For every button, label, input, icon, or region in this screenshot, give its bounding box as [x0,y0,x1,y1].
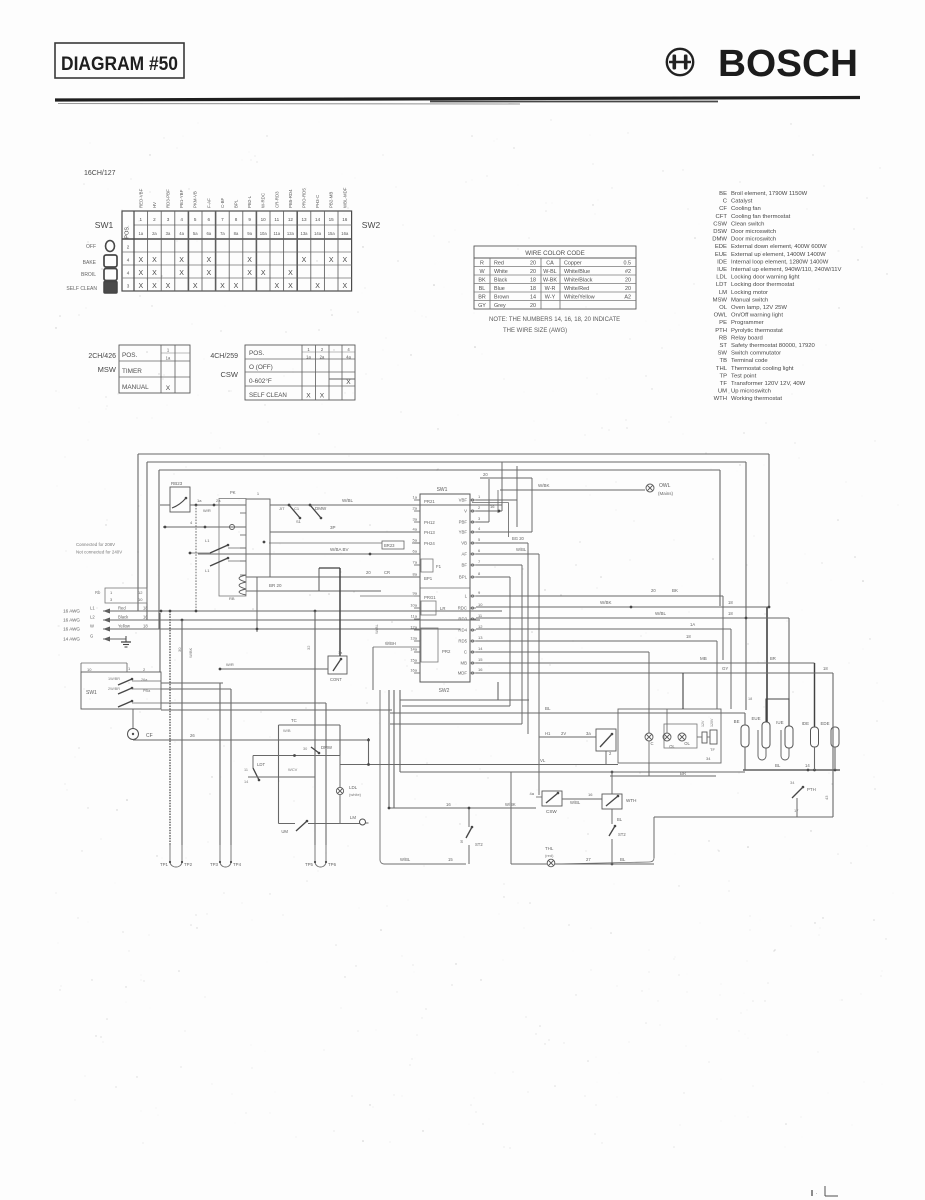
svg-text:6: 6 [208,217,211,222]
svg-text:Test point: Test point [731,373,757,379]
svg-text:18: 18 [530,286,536,292]
svg-text:14: 14 [478,646,483,651]
svg-text:30: 30 [177,647,182,652]
svg-text:11: 11 [244,768,248,772]
svg-text:Internal loop element, 1280W 1: Internal loop element, 1280W 1400W [731,259,829,265]
svg-text:BROIL: BROIL [81,272,96,278]
svg-text:TP5: TP5 [305,862,314,867]
svg-text:X: X [166,283,171,290]
svg-text:OWL: OWL [659,483,671,489]
svg-text:1: 1 [140,217,143,222]
svg-text:C-BF: C-BF [220,197,225,208]
svg-text:CF: CF [146,733,153,739]
svg-text:C: C [464,650,467,655]
svg-text:W-RDC: W-RDC [261,193,266,208]
svg-text:C: C [650,741,653,746]
svg-text:Cooling fan: Cooling fan [731,206,761,212]
svg-text:15: 15 [329,217,335,222]
svg-text:9: 9 [478,590,481,595]
svg-text:BL: BL [620,857,626,862]
svg-text:W/BL: W/BL [516,547,527,552]
svg-text:2: 2 [321,347,324,352]
svg-text:3a: 3a [586,731,591,736]
svg-text:16: 16 [446,802,451,807]
svg-text:BR: BR [770,656,776,661]
svg-text:W/B: W/B [283,728,291,733]
svg-text:SW1: SW1 [437,487,448,493]
svg-text:Internal up element, 940W/110,: Internal up element, 940W/110, 240W/11V [731,267,842,273]
svg-text:16: 16 [342,217,348,222]
svg-text:PBF: PBF [459,520,468,525]
svg-text:18: 18 [530,277,536,283]
svg-text:Oven lamp, 12V 25W: Oven lamp, 12V 25W [731,305,787,311]
svg-text:OL: OL [684,741,690,746]
svg-text:16a: 16a [410,668,417,673]
svg-text:3a: 3a [166,231,171,236]
svg-text:14 AWG: 14 AWG [63,637,80,642]
svg-text:White/Black: White/Black [564,277,593,283]
svg-text:LDT: LDT [716,282,728,288]
svg-text:1: 1 [257,491,260,496]
svg-text:2a: 2a [413,506,418,511]
svg-text:X: X [306,393,311,400]
svg-text:Broil element, 1790W 1150W: Broil element, 1790W 1150W [731,191,808,197]
svg-text:X: X [179,257,184,264]
svg-text:W/BL: W/BL [342,498,353,503]
svg-text:W-R: W-R [545,286,556,292]
svg-text:F1: F1 [436,564,442,569]
svg-text:SW1: SW1 [86,690,97,696]
svg-text:RB: RB [719,335,727,341]
svg-text:Manual switch: Manual switch [731,297,768,303]
svg-text:TP6: TP6 [328,862,337,867]
svg-text:X: X [346,379,351,386]
svg-text:PTH: PTH [807,787,816,792]
svg-text:1a: 1a [138,231,143,236]
svg-text:LM: LM [719,290,727,296]
svg-text:34: 34 [706,756,711,761]
svg-text:TP2: TP2 [184,862,193,867]
svg-text:CA: CA [546,260,554,266]
svg-text:Locking door warning light: Locking door warning light [731,275,800,281]
svg-text:H1: H1 [545,731,551,736]
svg-text:5: 5 [478,537,481,542]
svg-text:EDE: EDE [715,244,727,250]
svg-text:PH12: PH12 [424,520,435,525]
svg-text:16 AWG: 16 AWG [63,627,80,632]
svg-text:X: X [193,283,198,290]
svg-text:10: 10 [478,602,483,607]
svg-text:CONT: CONT [330,677,342,682]
svg-text:PRO-RD5: PRO-RD5 [302,188,307,208]
svg-text:RD4: RD4 [458,628,467,633]
svg-text:3a: 3a [413,517,418,522]
svg-text:14: 14 [244,780,248,784]
svg-text:4: 4 [180,217,183,222]
svg-text:Yellow: Yellow [118,624,131,629]
svg-text:9a: 9a [413,591,418,596]
svg-text:G: G [90,634,93,639]
svg-text:7a: 7a [220,231,225,236]
svg-text:3: 3 [478,516,481,521]
svg-text:THL: THL [716,366,728,372]
svg-text:X: X [152,270,157,277]
svg-text:TF: TF [720,381,728,387]
svg-text:W/BL: W/BL [570,800,581,805]
svg-text:11a: 11a [273,231,280,236]
svg-text:3: 3 [110,597,113,602]
svg-text:WIRE COLOR CODE: WIRE COLOR CODE [525,250,584,257]
svg-text:AF: AF [462,552,468,557]
svg-text:VB: VB [461,541,467,546]
svg-text:BR: BR [680,771,686,776]
svg-text:Not connected for 240V: Not connected for 240V [76,550,122,555]
svg-text:X: X [302,257,307,264]
svg-text:15a: 15a [410,658,417,663]
svg-text:VBF: VBF [459,498,468,503]
svg-text:Black: Black [494,277,507,283]
svg-text:L2: L2 [90,615,95,620]
svg-text:BR23: BR23 [384,543,395,548]
svg-text:X: X [138,283,143,290]
svg-text:27: 27 [586,857,591,862]
svg-text:6a: 6a [206,231,211,236]
svg-text:1a: 1a [197,498,202,503]
svg-text:18: 18 [748,697,752,701]
svg-text:W-Y: W-Y [545,294,556,300]
svg-text:PBa: PBa [143,689,151,693]
svg-text:20: 20 [366,570,371,575]
svg-text:13: 13 [301,217,307,222]
svg-text:YBF: YBF [459,530,468,535]
svg-text:16a: 16a [341,231,349,236]
svg-text:W/BL: W/BL [400,857,411,862]
svg-text:2: 2 [143,667,146,672]
svg-text:CSW: CSW [221,370,239,379]
svg-text:PH13: PH13 [424,530,435,535]
svg-text:OWL: OWL [714,313,728,319]
svg-text:10: 10 [138,597,143,602]
svg-text:W/BK: W/BK [505,802,516,807]
svg-text:20: 20 [530,260,536,266]
svg-text:16: 16 [588,792,593,797]
svg-text:BG 20: BG 20 [512,536,525,541]
svg-text:12: 12 [138,590,143,595]
svg-text:GY: GY [722,666,728,671]
svg-text:Safety thermostat 80000, 17920: Safety thermostat 80000, 17920 [731,343,816,349]
svg-text:5: 5 [194,217,197,222]
svg-text:3P: 3P [330,525,336,530]
svg-text:Copper: Copper [564,260,582,266]
svg-text:L: L [465,594,468,599]
svg-text:12: 12 [478,624,483,629]
svg-text:Locking motor: Locking motor [731,290,768,296]
svg-text:BP1: BP1 [424,576,433,581]
svg-text:CR: CR [384,570,390,575]
svg-text:4: 4 [190,520,193,525]
svg-text:White/Yellow: White/Yellow [564,294,595,300]
svg-text:X: X [206,257,211,264]
svg-text:1: 1 [307,347,310,352]
svg-text:IDE: IDE [717,259,727,265]
svg-text:LDL: LDL [716,275,728,281]
svg-text:SW1: SW1 [95,220,114,230]
svg-text:W/R: W/R [226,662,234,667]
svg-text:White/Blue: White/Blue [564,269,590,275]
svg-text:L1: L1 [205,568,210,573]
svg-text:X: X [247,270,252,277]
svg-text:OFF: OFF [86,244,96,250]
svg-text:CFT: CFT [716,214,728,220]
svg-text:8: 8 [235,217,238,222]
svg-text:13: 13 [478,635,483,640]
svg-text:X: X [342,283,347,290]
svg-text:7: 7 [221,217,224,222]
svg-text:PR2: PR2 [442,649,451,654]
svg-text:Door microswitch: Door microswitch [731,229,776,235]
svg-text:IDE: IDE [802,721,809,726]
svg-text:X: X [320,393,325,400]
svg-text:W-BK: W-BK [543,277,557,283]
svg-text:C: C [723,199,728,205]
svg-text:20: 20 [530,303,536,309]
svg-text:GY: GY [478,303,486,309]
svg-text:2: 2 [609,751,612,756]
svg-text:.: . [816,1190,817,1196]
svg-text:EDE: EDE [820,721,829,726]
svg-text:16: 16 [478,667,483,672]
svg-text:0.5: 0.5 [624,260,632,266]
svg-text:W: W [90,624,94,629]
svg-text:BK: BK [672,588,678,593]
svg-text:Switch commutator: Switch commutator [731,351,781,357]
svg-text:18: 18 [143,624,148,629]
svg-text:3: 3 [127,284,130,289]
svg-text:Door microswitch: Door microswitch [731,237,776,243]
svg-text:HV: HV [152,202,157,208]
svg-text:S: S [460,839,463,844]
svg-text:11: 11 [274,217,279,222]
svg-text:2W/BR: 2W/BR [108,687,120,691]
svg-text:RD5: RD5 [458,639,467,644]
svg-text:2: 2 [127,245,130,250]
svg-text:TP: TP [719,373,727,379]
svg-text:W/BK: W/BK [188,647,193,658]
svg-text:X: X [274,283,279,290]
svg-text:BF: BF [462,563,468,568]
svg-text:W/BA BV: W/BA BV [330,547,349,552]
svg-text:W-BL: W-BL [543,269,556,275]
svg-text:PE: PE [719,320,727,326]
svg-text:1a: 1a [338,651,343,655]
svg-text:ST: ST [719,343,727,349]
svg-text:12: 12 [288,217,294,222]
svg-text:IUE: IUE [717,267,727,273]
svg-text:14: 14 [315,217,321,222]
svg-text:SW2: SW2 [439,688,450,694]
svg-text:LDT: LDT [257,762,265,767]
svg-text:POS.: POS. [249,350,264,357]
svg-text:(Mains): (Mains) [658,491,674,496]
svg-text:CSW: CSW [546,809,557,814]
svg-text:W/BL: W/BL [655,611,666,616]
svg-text:8a: 8a [413,572,418,577]
svg-text:SELF CLEAN: SELF CLEAN [249,392,287,399]
svg-text:BK: BK [478,277,486,283]
svg-text:C1: C1 [294,506,300,511]
svg-text:2a: 2a [152,231,157,236]
svg-text:Red: Red [118,606,126,611]
svg-text:Clean switch: Clean switch [731,221,764,227]
svg-text:120V: 120V [710,718,714,727]
svg-text:DMW: DMW [321,745,333,750]
svg-text:MSW: MSW [713,297,728,303]
svg-text:X: X [234,283,239,290]
svg-text:16: 16 [490,504,495,509]
svg-text:16 AWG: 16 AWG [63,618,80,623]
svg-text:X: X [329,257,334,264]
svg-text:X: X [138,270,143,277]
svg-text:F-AF: F-AF [206,198,211,208]
svg-text:16 AWG: 16 AWG [63,609,80,614]
svg-text:1a: 1a [306,355,311,360]
svg-text:1W/BR: 1W/BR [108,677,120,681]
svg-text:18: 18 [823,666,828,671]
svg-text:10a: 10a [260,231,268,236]
svg-text:MDF: MDF [458,671,468,676]
svg-text:W/BK: W/BK [538,483,550,488]
svg-text:1a: 1a [166,356,171,361]
svg-text:16CH/127: 16CH/127 [84,170,116,177]
svg-text:BL: BL [545,706,551,711]
svg-text:32: 32 [306,645,311,650]
svg-text:White: White [494,269,508,275]
svg-text:POS.: POS. [125,225,131,239]
svg-text:LR: LR [440,606,446,611]
svg-text:18: 18 [143,606,148,611]
svg-text:Connected for 208V: Connected for 208V [76,542,115,547]
svg-text:WTH: WTH [626,798,636,803]
svg-text:18: 18 [686,634,691,639]
svg-text:DMW: DMW [315,506,327,511]
svg-text:11: 11 [478,613,483,618]
svg-text:7: 7 [478,559,481,564]
svg-text:Blue: Blue [494,286,505,292]
svg-text:A2: A2 [624,294,631,300]
svg-text:EUE: EUE [751,716,760,721]
svg-text:CR-RD3: CR-RD3 [274,191,279,208]
svg-text:18: 18 [728,611,733,616]
svg-text:16: 16 [143,615,148,620]
svg-text:X: X [152,283,157,290]
svg-text:MB: MB [461,661,468,666]
svg-text:26a: 26a [141,678,148,682]
svg-text:BE: BE [719,191,727,197]
svg-text:0-602°F: 0-602°F [249,377,272,385]
svg-text:X: X [288,270,293,277]
svg-text:SW2: SW2 [362,220,381,230]
svg-text:White/Red: White/Red [564,286,589,292]
svg-text:PKM-VB: PKM-VB [193,191,198,208]
svg-text:13a: 13a [301,231,309,236]
svg-text:5a: 5a [413,538,418,543]
svg-text:MANUAL: MANUAL [122,384,149,391]
svg-text:X: X [247,257,252,264]
svg-text:X: X [342,257,347,264]
svg-text:Brown: Brown [494,294,509,300]
svg-text:ST2: ST2 [475,842,483,847]
svg-text:8a: 8a [234,231,239,236]
svg-text:15a: 15a [328,231,336,236]
svg-text:1: 1 [110,590,113,595]
svg-text:ST2: ST2 [618,832,626,837]
svg-text:TB: TB [719,358,727,364]
svg-text:X: X [138,257,143,264]
svg-text:BPL: BPL [459,575,468,580]
svg-text:#2: #2 [625,269,631,275]
svg-text:2: 2 [478,505,481,510]
svg-text:TP3: TP3 [210,862,219,867]
svg-text:PB2-MB: PB2-MB [329,192,334,208]
svg-text:X: X [261,270,266,277]
svg-text:BL: BL [479,286,486,292]
svg-text:X: X [179,270,184,277]
svg-text:PRG1: PRG1 [424,595,436,600]
svg-text:RB23: RB23 [171,481,183,486]
svg-text:20: 20 [625,277,631,283]
svg-text:12V: 12V [701,720,705,727]
svg-text:THE WIRE SIZE (AWG): THE WIRE SIZE (AWG) [503,328,567,334]
svg-text:1a: 1a [413,495,418,500]
svg-text:BR 20: BR 20 [269,583,282,588]
svg-text:Black: Black [118,615,129,620]
svg-text:UM: UM [281,829,288,834]
svg-text:9: 9 [248,217,251,222]
svg-text:PTH: PTH [715,328,727,334]
svg-text:THL: THL [545,846,554,851]
svg-text:RD3-PBF: RD3-PBF [166,189,171,208]
svg-text:Up microswitch: Up microswitch [731,389,771,395]
svg-text:TC: TC [291,718,297,723]
svg-text:LDL: LDL [349,785,358,790]
svg-text:BAKE: BAKE [83,260,97,266]
svg-text:11a: 11a [411,614,418,619]
svg-text:Grey: Grey [494,303,506,309]
svg-text:DMW: DMW [712,237,727,243]
svg-text:MB: MB [700,656,707,661]
svg-text:Programmer: Programmer [731,320,764,326]
svg-text:3: 3 [167,217,170,222]
svg-text:WBL-MDF: WBL-MDF [342,187,347,208]
svg-text:10: 10 [87,667,92,672]
svg-text:BL: BL [617,817,623,822]
svg-text:MSW: MSW [98,365,117,374]
svg-text:X: X [152,257,157,264]
svg-text:14: 14 [530,294,536,300]
svg-text:9a: 9a [247,231,252,236]
svg-text:15: 15 [478,657,483,662]
svg-text:13a: 13a [410,636,417,641]
svg-text:TF: TF [710,747,715,752]
svg-text:SW: SW [718,351,728,357]
svg-text:PB2-L: PB2-L [247,195,252,208]
svg-text:15: 15 [448,857,453,862]
svg-text:(white): (white) [349,792,362,797]
svg-text:NOTE: THE NUMBERS 14, 16, 18,: NOTE: THE NUMBERS 14, 16, 18, 20 INDICAT… [489,317,620,323]
svg-text:DSW: DSW [713,229,727,235]
svg-text:20: 20 [651,588,656,593]
svg-text:BOSCH: BOSCH [718,43,858,85]
